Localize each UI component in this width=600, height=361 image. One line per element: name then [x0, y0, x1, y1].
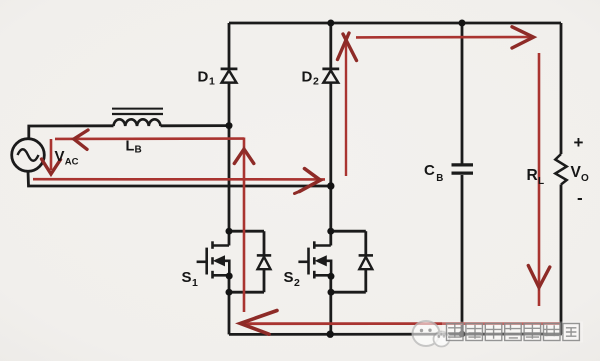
S2 body diode: [331, 231, 373, 292]
red current arrow down beside RL: [528, 53, 550, 306]
label D1: [198, 68, 216, 87]
wire D1 branch upper: [228, 23, 231, 68]
wire D2 branch middle: [329, 83, 332, 246]
watermark text 电源研发精英圈: [442, 322, 583, 343]
red current arrow left along inductor: [55, 130, 244, 149]
svg-text:S: S: [182, 269, 192, 286]
node junction dots: [226, 20, 466, 338]
watermark chat icon: [413, 321, 450, 347]
svg-text:B: B: [436, 173, 443, 184]
wire bottom bus: [229, 333, 562, 336]
wire RL branch lower: [560, 185, 563, 335]
label S2: [284, 269, 301, 289]
svg-text:V: V: [571, 164, 582, 181]
red current arrow up through S1 leg: [234, 138, 254, 313]
red current arrow up beside D2: [338, 33, 357, 176]
capacitor CB plates: [452, 165, 474, 173]
svg-text:R: R: [527, 167, 538, 184]
wire D1 branch middle: [228, 83, 231, 246]
wire S1 source down: [228, 275, 231, 334]
resistor RL zigzag: [555, 154, 566, 185]
label D2: [302, 68, 320, 87]
red current arrow left along bottom bus: [240, 311, 560, 335]
svg-text:2: 2: [313, 76, 319, 88]
label VO: [571, 164, 590, 184]
red VAC polarity arrow down: [42, 139, 61, 174]
label VAC: [55, 148, 79, 168]
svg-text:L: L: [538, 176, 544, 187]
wire CB branch lower: [461, 175, 464, 334]
red current arrow right along top bus: [356, 27, 534, 48]
S1 body diode: [229, 231, 271, 292]
diode D2: [322, 69, 339, 83]
svg-text:V: V: [55, 148, 65, 165]
AC source VAC: [12, 139, 45, 172]
svg-text:-: -: [577, 189, 583, 208]
svg-text:1: 1: [192, 277, 198, 289]
svg-text:D: D: [302, 68, 313, 85]
transistor S2 (MOSFET): [298, 241, 331, 278]
label CB: [424, 162, 443, 184]
svg-text:B: B: [135, 145, 142, 156]
label RL: [527, 167, 545, 187]
wire AC source top lead to inductor: [29, 126, 114, 139]
svg-text:D: D: [198, 68, 209, 85]
wire CB branch upper: [461, 23, 464, 164]
label S1: [182, 269, 199, 289]
wire D2 branch upper: [329, 23, 332, 68]
wire top bus: [229, 22, 561, 25]
wire inductor to node A: [161, 124, 230, 127]
svg-text:C: C: [424, 162, 435, 179]
wire AC source bottom lead to node B: [28, 171, 331, 186]
inductor LB: [112, 109, 163, 126]
svg-text:O: O: [581, 173, 589, 184]
wire S2 source down: [329, 275, 332, 334]
svg-text:2: 2: [294, 277, 300, 289]
svg-text:+: +: [574, 133, 584, 152]
label LB: [126, 138, 142, 155]
diode D1: [221, 69, 238, 83]
svg-text:1: 1: [209, 76, 215, 88]
svg-text:S: S: [284, 269, 294, 286]
svg-text:AC: AC: [65, 157, 79, 168]
red current arrow right along AC return: [33, 169, 325, 194]
transistor S1 (MOSFET): [197, 241, 230, 278]
svg-text:L: L: [126, 138, 135, 154]
wire RL branch upper: [560, 23, 563, 154]
